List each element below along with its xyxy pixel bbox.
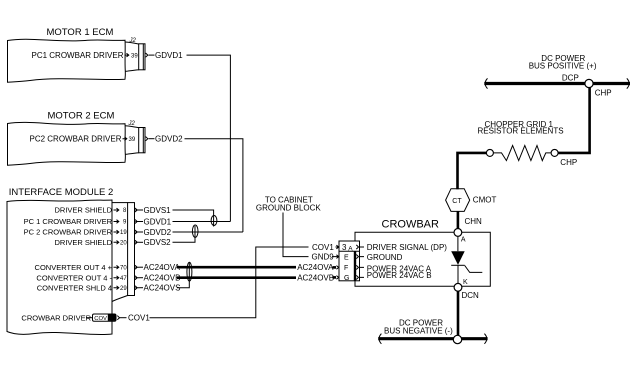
- svg-text:DRIVER SHIELD: DRIVER SHIELD: [54, 238, 112, 247]
- wire AC24OVB into connector: [333, 276, 337, 279]
- svg-text:DRIVER SHIELD: DRIVER SHIELD: [54, 206, 112, 215]
- connector right-side chevrons: [356, 245, 364, 249]
- svg-text:CHN: CHN: [465, 217, 483, 226]
- wire GDVD1: [149, 54, 155, 56]
- svg-text:70: 70: [120, 265, 127, 271]
- svg-text:GDVS2: GDVS2: [144, 238, 172, 247]
- svg-text:GDVD2: GDVD2: [144, 228, 172, 237]
- negative bus: [378, 337, 487, 340]
- wire AC24OVB: [140, 277, 144, 279]
- svg-text:3: 3: [342, 243, 347, 252]
- wire GND9 into connector: [332, 255, 339, 259]
- positive bus: [484, 82, 630, 85]
- svg-text:47: 47: [120, 276, 127, 282]
- svg-text:INTERFACE MODULE 2: INTERFACE MODULE 2: [9, 187, 114, 198]
- connector (interface module right side): [112, 202, 128, 204]
- svg-text:CROWBAR: CROWBAR: [382, 219, 440, 231]
- svg-text:COV: COV: [94, 316, 107, 322]
- svg-text:PC 1 CROWBAR DRIVER: PC 1 CROWBAR DRIVER: [24, 217, 113, 226]
- svg-text:GDVD1: GDVD1: [155, 51, 183, 60]
- svg-text:CHP: CHP: [560, 158, 577, 167]
- svg-text:COV1: COV1: [312, 243, 334, 252]
- svg-text:MOTOR 1 ECM: MOTOR 1 ECM: [47, 27, 114, 38]
- svg-text:A: A: [461, 236, 466, 243]
- SCR thyristor: [457, 236, 459, 251]
- svg-text:POWER 24VAC B: POWER 24VAC B: [367, 271, 432, 280]
- svg-text:GND9: GND9: [312, 253, 335, 262]
- svg-text:PC 2 CROWBAR DRIVER: PC 2 CROWBAR DRIVER: [24, 228, 113, 237]
- SCR gate lead: [465, 266, 483, 273]
- svg-text:PC1 CROWBAR DRIVER: PC1 CROWBAR DRIVER: [31, 51, 123, 60]
- connector J2 (motor 2): [139, 128, 145, 153]
- svg-text:AC24OVA: AC24OVA: [144, 263, 181, 272]
- connector neck (motor 1): [125, 42, 138, 71]
- svg-text:G: G: [344, 275, 349, 282]
- svg-text:MOTOR 2 ECM: MOTOR 2 ECM: [48, 111, 115, 122]
- svg-text:J2: J2: [129, 38, 137, 44]
- svg-text:K: K: [463, 279, 468, 286]
- wire GDVS2: [140, 241, 144, 243]
- node DCP/CHP on positive bus: [585, 79, 593, 87]
- svg-text:GDVD1: GDVD1: [144, 217, 172, 226]
- svg-text:PC2 CROWBAR DRIVER: PC2 CROWBAR DRIVER: [29, 135, 121, 144]
- current transducer CT hexagon CMOT: [446, 189, 470, 212]
- resistor left terminal circle: [486, 149, 493, 156]
- svg-text:J2: J2: [128, 121, 136, 127]
- pin arrow and pin 39 (motor 2): [123, 137, 127, 141]
- svg-text:39: 39: [131, 53, 138, 59]
- svg-text:GROUND BLOCK: GROUND BLOCK: [256, 204, 322, 213]
- svg-text:CHP: CHP: [595, 88, 612, 97]
- thick wire CT to crowbar, node CHN: [457, 211, 460, 228]
- thick wire bus to resistor: [558, 88, 589, 153]
- wire cabinet ground to GND9: [283, 213, 309, 257]
- svg-text:CONVERTER OUT 4 +: CONVERTER OUT 4 +: [35, 263, 113, 272]
- svg-text:F: F: [344, 265, 348, 272]
- svg-text:E: E: [344, 254, 349, 261]
- shield loop ellipse 2: [192, 225, 198, 237]
- svg-text:19: 19: [120, 230, 127, 236]
- svg-text:29: 29: [120, 286, 127, 292]
- svg-text:CMOT: CMOT: [473, 196, 497, 205]
- svg-text:CONVERTER OUT 4 -: CONVERTER OUT 4 -: [36, 273, 112, 282]
- wire AC24OVA: [140, 266, 144, 268]
- module MOTOR 2 ECM outline: [8, 122, 126, 165]
- COV inline element: [93, 314, 117, 321]
- shield loop ellipse 3 (tall): [187, 262, 192, 281]
- svg-text:DCP: DCP: [562, 74, 579, 83]
- wire AC24OVS: [140, 287, 144, 289]
- svg-text:A: A: [348, 245, 353, 252]
- wire GDVD1 (interface): [140, 221, 144, 223]
- node DCN on negative bus: [453, 335, 461, 343]
- module MOTOR 1 ECM outline: [8, 39, 126, 82]
- crowbar connector block: [339, 241, 360, 281]
- resistor R zigzag: [494, 146, 552, 161]
- svg-text:AC24OVB: AC24OVB: [297, 273, 334, 282]
- svg-text:CONVERTER SHLD 4: CONVERTER SHLD 4: [37, 283, 112, 292]
- resistor right terminal circle CHP: [551, 149, 558, 156]
- thick wire resistor to CT: [458, 153, 487, 189]
- wire GDVD2 (interface): [140, 231, 144, 233]
- wire COV1: [120, 317, 127, 319]
- svg-text:AC24OVB: AC24OVB: [144, 274, 181, 283]
- connector J2 (motor 1): [139, 44, 145, 70]
- svg-text:COV1: COV1: [128, 314, 150, 323]
- svg-text:DCN: DCN: [462, 291, 480, 300]
- svg-text:GDVD2: GDVD2: [155, 135, 183, 144]
- svg-text:GDVS1: GDVS1: [144, 206, 172, 215]
- svg-text:GROUND: GROUND: [367, 253, 403, 262]
- shield loop ellipse 1: [211, 216, 217, 226]
- svg-text:RESISTOR ELEMENTS: RESISTOR ELEMENTS: [477, 127, 563, 136]
- svg-text:39: 39: [129, 137, 136, 143]
- svg-text:BUS NEGATIVE (-): BUS NEGATIVE (-): [384, 327, 453, 336]
- wire AC24OVA into connector: [333, 266, 337, 269]
- wire COV1 into connector: [336, 245, 339, 249]
- pin arrow and pin 39 (motor 1): [125, 53, 129, 57]
- connector neck (motor 2): [125, 126, 138, 155]
- svg-text:DRIVER SIGNAL (DP): DRIVER SIGNAL (DP): [367, 243, 447, 252]
- thick wire K to negative bus: [457, 291, 460, 339]
- svg-text:20: 20: [120, 241, 127, 247]
- node A circle: [454, 229, 462, 237]
- svg-text:AC24OVS: AC24OVS: [144, 284, 181, 293]
- svg-text:BUS POSITIVE (+): BUS POSITIVE (+): [529, 61, 597, 70]
- svg-text:AC24OVA: AC24OVA: [297, 263, 334, 272]
- svg-text:CT: CT: [452, 198, 462, 205]
- wire GDVD2: [149, 138, 155, 140]
- svg-text:CROWBAR DRIVER: CROWBAR DRIVER: [21, 313, 91, 322]
- wire GDVS1: [140, 209, 144, 211]
